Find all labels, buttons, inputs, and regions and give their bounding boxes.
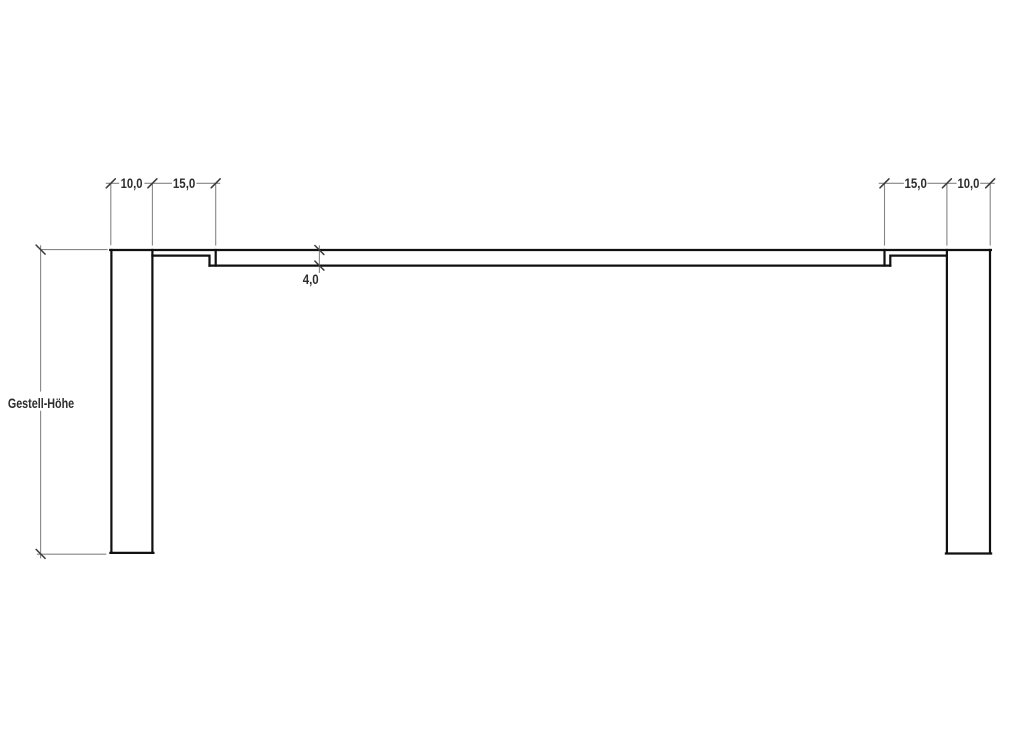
extension line at x=215.7	[215, 184, 217, 246]
tick at 152.4,183	[148, 179, 157, 188]
extension line at x=884.5	[884, 184, 886, 246]
svg-text:10,0: 10,0	[121, 176, 143, 192]
extension line at x=946.9	[946, 184, 948, 246]
vertical dimension line Gestell-Hoehe	[40, 245, 42, 558]
svg-text:10,0: 10,0	[957, 176, 979, 192]
extension line at x=990.2	[989, 184, 991, 246]
left rebate tongue profile	[152, 256, 209, 266]
dimension line top-left (10,0 / 15,0)	[106, 182, 220, 184]
svg-text:Gestell-Höhe: Gestell-Höhe	[8, 396, 74, 412]
tick at 946.9,183	[942, 179, 951, 188]
svg-text:15,0: 15,0	[905, 176, 927, 192]
left leg	[110, 250, 153, 553]
right rebate tongue profile	[890, 256, 947, 266]
svg-text:15,0: 15,0	[173, 176, 195, 192]
extension line at x=152.4	[151, 184, 153, 246]
svg-text:4,0: 4,0	[303, 272, 319, 288]
extension line at x=110.8	[110, 184, 112, 245]
tick at 319.4,250	[315, 246, 324, 255]
tick at 319.4,265.6	[315, 261, 324, 270]
tabletop plate left end edge	[215, 250, 217, 266]
tabletop plate bottom edge	[210, 265, 891, 267]
tick at 990.2,183	[986, 179, 995, 188]
right leg	[946, 250, 991, 554]
dimension line 4,0 plate thickness	[318, 245, 320, 273]
top edge line of frame	[110, 249, 991, 251]
dimension line top-right (15,0 / 10,0)	[879, 182, 995, 184]
tick at 40.6,249.6	[36, 245, 45, 254]
tick at 110.8,183	[106, 179, 115, 188]
tabletop plate right end edge	[883, 250, 885, 266]
tick at 40.6,553.9	[36, 549, 45, 558]
extension line top of leg	[42, 249, 108, 251]
extension line bottom of leg	[37, 553, 107, 555]
tick at 884.5,183	[880, 179, 889, 188]
tick at 215.7,183	[211, 179, 220, 188]
